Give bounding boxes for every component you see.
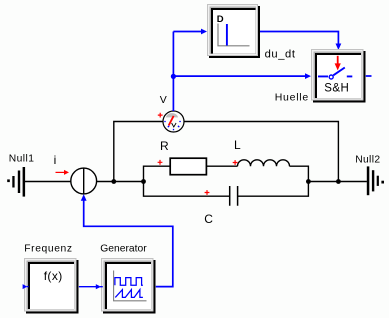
svg-text:Null1: Null1: [9, 154, 35, 165]
svg-text:Generator: Generator: [100, 244, 147, 255]
svg-text:du_dt: du_dt: [265, 49, 296, 61]
svg-text:L: L: [234, 138, 241, 152]
svg-text:D: D: [217, 14, 224, 25]
svg-text:C: C: [204, 212, 213, 226]
svg-text:S&H: S&H: [324, 82, 349, 94]
svg-text:Null2: Null2: [355, 155, 380, 166]
svg-text:V: V: [160, 94, 167, 106]
svg-text:i: i: [54, 153, 57, 167]
svg-text:f(x): f(x): [44, 269, 63, 283]
svg-text:Frequenz: Frequenz: [24, 244, 72, 255]
svg-text:R: R: [160, 139, 169, 153]
svg-text:Huelle: Huelle: [275, 92, 309, 104]
